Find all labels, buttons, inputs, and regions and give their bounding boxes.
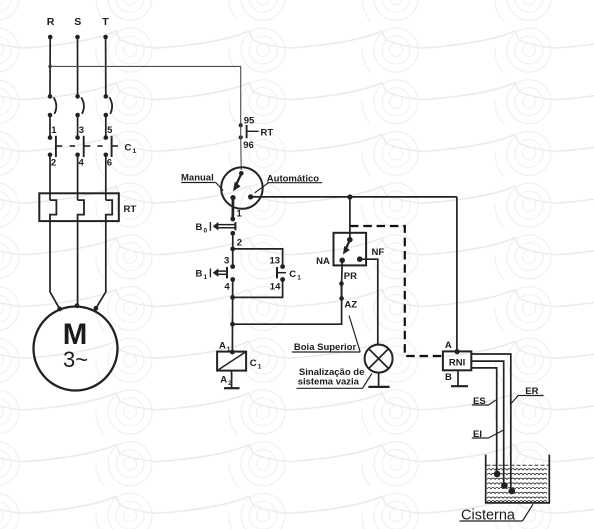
contactor coil C1: [217, 352, 246, 371]
terminal dot S: [75, 35, 80, 40]
level relay RNI box: [443, 351, 471, 370]
PR NA contact dot: [339, 258, 345, 264]
ground below coil: [224, 371, 240, 389]
coil A1 terminal dot: [230, 350, 235, 355]
motor terminal dot V: [75, 303, 80, 308]
electrode tip dot EI: [501, 482, 508, 489]
svg-text:RT: RT: [124, 204, 137, 215]
contactor C1 main contact 3-4: [75, 135, 83, 157]
svg-text:4: 4: [224, 282, 230, 293]
svg-text:4: 4: [79, 158, 85, 169]
wire S to contact 3: [77, 115, 79, 138]
junction dot PR branch: [347, 194, 352, 199]
svg-text:3~: 3~: [63, 347, 88, 372]
wire NA to float contact, PR label: [341, 260, 344, 283]
value label C1 main contacts: [125, 142, 137, 155]
svg-text:sistema vazia: sistema vazia: [298, 377, 360, 388]
dashed control link RNI to PR: [350, 226, 443, 356]
svg-text:RNI: RNI: [449, 357, 465, 368]
float switch AZ contact: [339, 281, 344, 300]
node tap on R, junction dot: [48, 65, 51, 68]
PR NF contact dot: [357, 256, 363, 262]
wire R to contact 1: [49, 115, 51, 138]
svg-text:T: T: [102, 16, 109, 28]
water surface line: [487, 464, 549, 466]
svg-text:2: 2: [51, 158, 56, 169]
water texture waves: [487, 469, 547, 502]
signal lamp circle: [365, 345, 393, 373]
svg-text:C: C: [289, 269, 296, 280]
B1 label: [196, 269, 208, 282]
wire NF to lamp: [360, 259, 378, 345]
ES label: [472, 396, 496, 407]
svg-text:Boia Superior: Boia Superior: [294, 342, 357, 353]
Sinalizacao label: [297, 367, 372, 389]
selector switch circle Manual/Automatico: [221, 167, 263, 209]
wire down to RNI A: [456, 197, 458, 352]
motor terminal dot W: [94, 306, 99, 311]
wire phase T vertical: [105, 37, 107, 96]
pushbutton B1 NO: [210, 264, 235, 282]
rejoin junction dot: [230, 295, 235, 300]
svg-text:A: A: [445, 340, 452, 351]
wire contact2 to RT: [49, 155, 51, 200]
C1 aux label: [289, 269, 301, 282]
electrode tip dot ER: [509, 488, 516, 495]
thermal overload relay RT box: [39, 193, 119, 221]
A1 label: [219, 341, 231, 354]
selector Manual position dot: [230, 195, 235, 200]
svg-text:C: C: [250, 358, 257, 369]
wire contact4 to RT: [77, 155, 79, 200]
B0 label: [196, 222, 208, 235]
electrode wire ES: [471, 368, 496, 474]
svg-text:6: 6: [107, 158, 112, 169]
RT heater element phase T: [106, 200, 112, 222]
Automatico label: [255, 173, 323, 192]
wire RT to motor W: [96, 221, 106, 308]
A2 label: [220, 375, 232, 388]
svg-text:B: B: [196, 222, 203, 233]
wire B0 to branch node: [232, 233, 234, 249]
RT heater element phase S: [78, 200, 84, 222]
EI label: [472, 429, 504, 440]
AZ node junction dot: [230, 322, 235, 327]
svg-text:1: 1: [204, 274, 208, 281]
selector common dot: [239, 171, 244, 176]
RT heater element phase R: [50, 200, 56, 222]
terminal dot T: [103, 35, 108, 40]
wire 4 down: [232, 280, 234, 298]
svg-text:R: R: [47, 16, 55, 28]
relay PR contact box: [334, 233, 367, 266]
selector Automatico position dot: [248, 194, 253, 199]
wire selector to node 1 (thick): [231, 198, 234, 219]
PR common dot: [347, 237, 353, 243]
svg-text:1: 1: [237, 209, 243, 220]
Cisterna label: [460, 504, 534, 523]
wire branch to 13: [233, 249, 283, 267]
cistern tank walls: [486, 455, 550, 503]
wire AZ branch horizontal: [233, 298, 342, 324]
wire control tap horizontal to 95: [50, 66, 241, 125]
wire contact6 to RT: [105, 155, 107, 200]
svg-text:1: 1: [297, 275, 301, 282]
wire T to contact 5: [105, 115, 107, 138]
electrode wire EI: [471, 361, 503, 485]
leader line AZ to Boia Superior: [349, 316, 360, 352]
wire node to contact 3: [232, 249, 234, 267]
pushbutton B0 NC: [210, 217, 235, 236]
wire phase S vertical: [77, 37, 79, 96]
svg-text:A: A: [220, 375, 227, 386]
contactor C1 main contact 5-6: [104, 135, 112, 157]
svg-text:AZ: AZ: [344, 299, 357, 310]
svg-text:1: 1: [51, 125, 57, 136]
wire Automatico horizontal: [251, 196, 457, 198]
motor terminal dot U: [57, 307, 62, 312]
svg-text:PR: PR: [344, 271, 357, 282]
svg-text:A: A: [219, 341, 226, 352]
svg-text:C: C: [125, 142, 132, 153]
svg-text:3: 3: [224, 256, 229, 267]
branch junction dot top: [230, 247, 235, 252]
svg-text:B: B: [445, 372, 452, 383]
svg-text:95: 95: [244, 115, 255, 126]
ground below lamp: [368, 373, 389, 387]
ER label: [511, 386, 544, 404]
svg-text:13: 13: [270, 256, 281, 267]
terminal dot R: [48, 35, 53, 40]
motor M 3-phase circle: [34, 307, 118, 391]
wire down to AZ node: [232, 297, 234, 324]
disconnect switch pole T: [104, 94, 113, 117]
svg-text:NA: NA: [316, 256, 330, 267]
svg-text:96: 96: [243, 140, 254, 151]
svg-text:1: 1: [133, 148, 137, 155]
svg-text:2: 2: [237, 237, 242, 248]
mechanical link dashed C1: [56, 145, 118, 147]
ground below RNI: [451, 370, 468, 386]
PR wiper arrow: [343, 240, 350, 254]
wire RT to motor V: [77, 221, 79, 305]
disconnect switch pole S: [75, 94, 84, 117]
Manual label: [181, 172, 223, 190]
svg-text:NF: NF: [372, 247, 385, 258]
svg-text:3: 3: [79, 125, 84, 136]
svg-text:5: 5: [107, 125, 113, 136]
svg-text:B: B: [196, 269, 203, 280]
coil label C1: [250, 358, 262, 371]
svg-text:14: 14: [270, 282, 281, 293]
svg-text:RT: RT: [261, 128, 274, 139]
contactor C1 main contact 1-2: [48, 135, 56, 157]
RT auxiliary contact 95-96: [239, 123, 259, 139]
svg-text:0: 0: [204, 228, 208, 235]
wire 96 to selector: [240, 137, 243, 170]
RNI A terminal dot: [455, 349, 460, 354]
disconnect switch pole R: [48, 94, 57, 117]
wire RT to motor U: [50, 221, 60, 309]
wire phase R vertical: [49, 37, 51, 96]
wire node to coil A1: [231, 324, 233, 352]
svg-text:1: 1: [258, 364, 262, 371]
wire junction to PR relay box: [349, 197, 351, 240]
Boia Superior label: [292, 342, 360, 353]
auxiliary contact C1 13-14: [277, 264, 286, 282]
electrode tip dot ES: [494, 471, 501, 478]
svg-text:Manual: Manual: [181, 172, 214, 183]
svg-text:S: S: [74, 16, 81, 28]
wire 14 rejoin: [233, 280, 283, 298]
electrode wire ER: [471, 354, 511, 491]
selector wiper arrow: [233, 174, 241, 192]
